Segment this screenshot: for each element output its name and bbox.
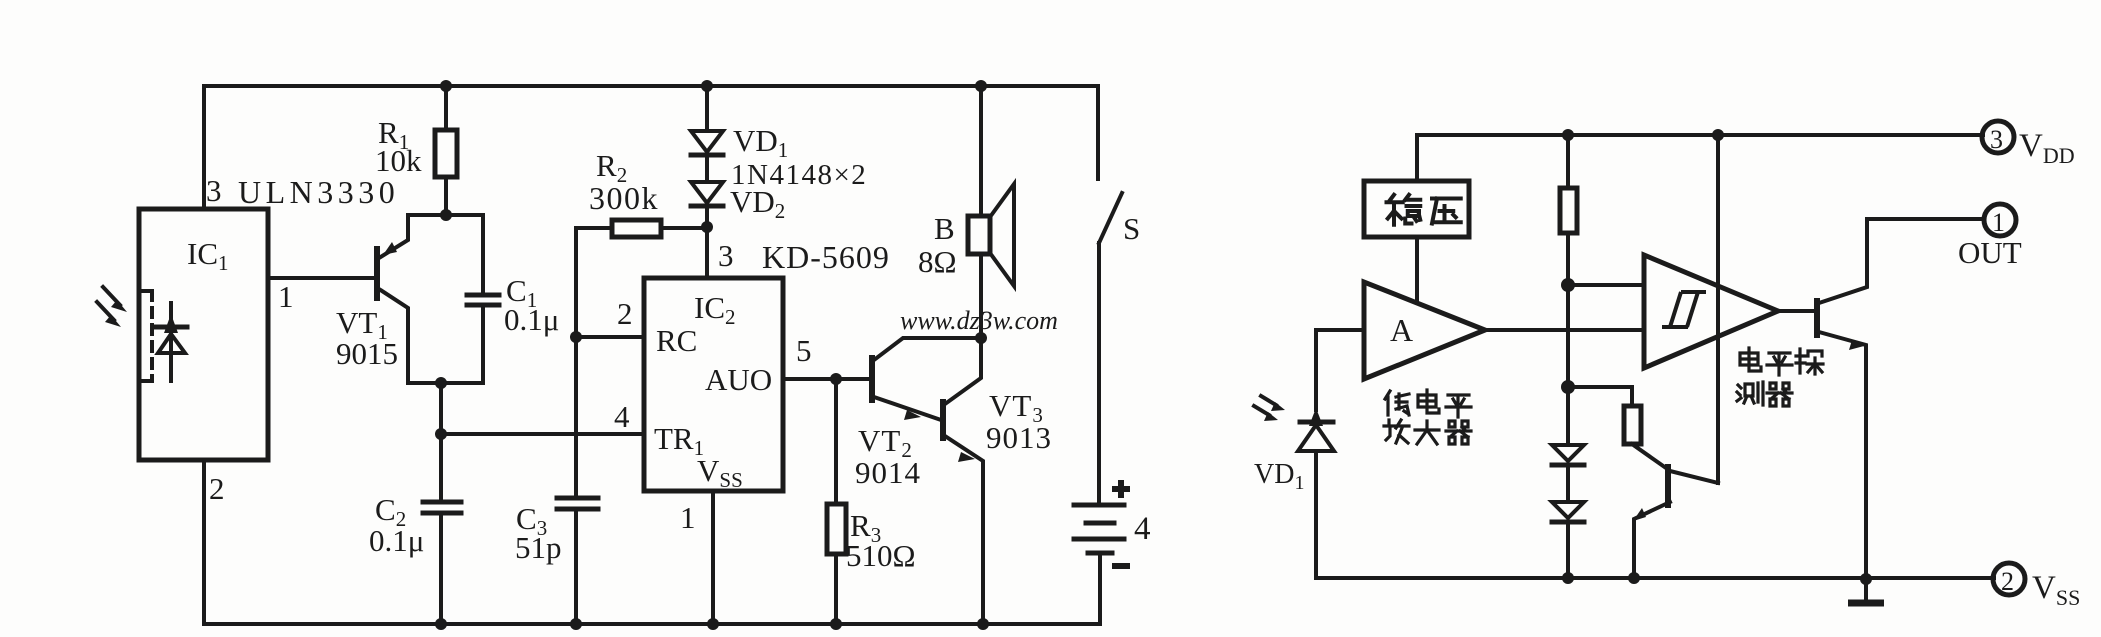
svg-text:3: 3: [206, 173, 222, 208]
svg-text:0.1μ: 0.1μ: [369, 523, 424, 558]
svg-text:2: 2: [2001, 567, 2014, 596]
svg-text:1: 1: [278, 279, 294, 314]
svg-text:2: 2: [209, 471, 225, 506]
svg-text:1: 1: [1992, 208, 2005, 237]
svg-text:4: 4: [614, 399, 630, 434]
svg-text:8Ω: 8Ω: [918, 244, 957, 279]
svg-text:AUO: AUO: [705, 362, 772, 397]
svg-text:3: 3: [718, 238, 734, 273]
svg-text:www.dz3w.com: www.dz3w.com: [900, 306, 1058, 335]
svg-text:3: 3: [1990, 125, 2003, 154]
svg-text:KD-5609: KD-5609: [762, 239, 890, 275]
svg-text:10k: 10k: [375, 143, 422, 178]
svg-text:2: 2: [617, 296, 633, 331]
svg-text:9014: 9014: [855, 455, 921, 490]
svg-text:S: S: [1123, 211, 1140, 246]
svg-text:RC: RC: [656, 323, 697, 358]
svg-text:ULN3330: ULN3330: [238, 174, 399, 210]
svg-text:9013: 9013: [986, 420, 1052, 455]
svg-text:4: 4: [1134, 511, 1151, 547]
svg-text:A: A: [1390, 312, 1413, 348]
svg-text:B: B: [934, 211, 955, 246]
svg-text:1: 1: [680, 500, 696, 535]
svg-text:0.1μ: 0.1μ: [504, 302, 559, 337]
svg-text:OUT: OUT: [1958, 235, 2022, 270]
svg-text:51p: 51p: [515, 530, 562, 565]
svg-text:510Ω: 510Ω: [846, 538, 916, 573]
svg-text:9015: 9015: [336, 336, 398, 371]
svg-text:300k: 300k: [589, 180, 659, 216]
svg-text:5: 5: [796, 333, 812, 368]
